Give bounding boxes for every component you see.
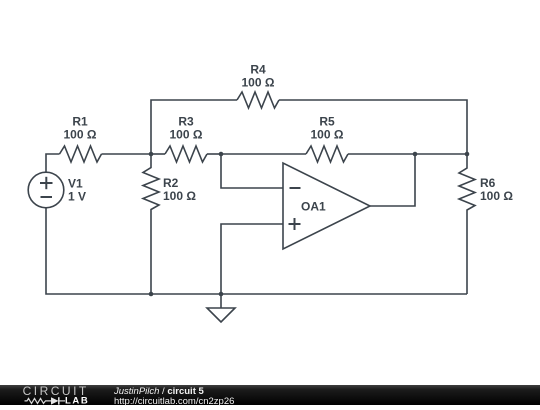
wire: node B to R5 — [221, 153, 306, 155]
svg-text:OA1: OA1 — [301, 200, 326, 214]
resistor R2 — [143, 154, 159, 294]
svg-text:R4: R4 — [250, 63, 266, 77]
wire: R3 to node B — [207, 153, 221, 155]
op-amp minus symbol — [290, 187, 301, 189]
svg-text:R3: R3 — [178, 115, 194, 129]
wire: R4 to top-right corner, down to node D — [279, 100, 467, 154]
wire: R1 to node A — [102, 153, 152, 155]
op-amp plus symbol — [289, 223, 301, 225]
svg-text:R6: R6 — [480, 176, 496, 190]
svg-text:100 Ω: 100 Ω — [163, 189, 196, 203]
node C junction dot — [413, 152, 418, 157]
svg-text:100 Ω: 100 Ω — [170, 128, 203, 142]
junction dot ground rail — [219, 292, 224, 297]
svg-text:100 Ω: 100 Ω — [311, 128, 344, 142]
wire: R5 through node C to node D — [348, 153, 467, 155]
wire: node B down to inverting input — [221, 154, 283, 188]
svg-text:100 Ω: 100 Ω — [480, 189, 513, 203]
resistor R3 — [165, 146, 207, 162]
svg-text:100 Ω: 100 Ω — [64, 128, 97, 142]
resistor R6 — [459, 154, 475, 294]
wire: op-amp output to node C — [370, 154, 415, 206]
node B junction dot — [219, 152, 224, 157]
voltage source V1 — [28, 172, 64, 208]
CircuitLab logo — [0, 384, 110, 405]
svg-text:R1: R1 — [72, 115, 88, 129]
junction dot R2 bottom — [149, 292, 154, 297]
wire: bottom ground rail — [46, 208, 467, 294]
V1 plus sign — [40, 182, 53, 184]
svg-text:R5: R5 — [319, 115, 335, 129]
node A junction dot — [149, 152, 154, 157]
svg-text:100 Ω: 100 Ω — [242, 76, 275, 90]
V1 minus sign — [41, 196, 53, 198]
wire: non-inverting input left and down to ground rail — [221, 224, 283, 294]
svg-text:1 V: 1 V — [68, 190, 86, 204]
svg-text:V1: V1 — [68, 177, 83, 191]
wire: node A to R3 — [151, 153, 165, 155]
wire: node A up and top rail to right rail (R4 branch) — [151, 100, 237, 154]
resistor R4 — [237, 92, 279, 108]
svg-text:LAB: LAB — [65, 395, 89, 405]
op-amp OA1 — [283, 163, 370, 249]
svg-text:R2: R2 — [163, 176, 179, 190]
wire: V1 top lead up to R1 row — [46, 154, 60, 172]
footer bar — [0, 385, 540, 406]
node D junction dot — [465, 152, 470, 157]
resistor R5 — [306, 146, 348, 162]
ground — [220, 294, 222, 308]
resistor R1 — [60, 146, 102, 162]
